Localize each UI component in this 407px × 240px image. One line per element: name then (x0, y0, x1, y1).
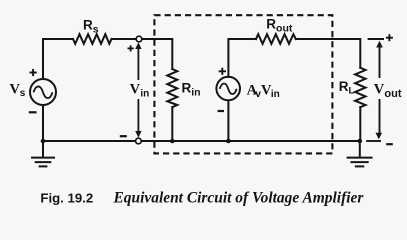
junction dot: AvVin bottom (226, 139, 231, 144)
polarity - of Vout (386, 143, 393, 145)
label Vout (with background patch) (372, 81, 386, 97)
label Vin (over arrow, with background patch) (129, 82, 152, 98)
node: input bottom terminal (open circle) (136, 138, 142, 144)
arrow Vin (between input terminals) (135, 42, 141, 137)
polarity - at input bottom (120, 135, 127, 137)
wire: Rs right to input node (112, 38, 137, 40)
junction dot: Rin bottom (170, 139, 175, 144)
polarity - of AvVin (218, 110, 224, 112)
polarity + of Vs (30, 69, 37, 76)
polarity + of Vout (386, 34, 393, 41)
polarity - of Vs (29, 111, 37, 113)
svg-text:in: in (140, 89, 149, 100)
svg-text:Equivalent Circuit of Voltage: Equivalent Circuit of Voltage Amplifier (113, 189, 365, 206)
junction dot: Vs bottom (41, 139, 46, 144)
polarity + at input node (128, 45, 134, 51)
polarity + of AvVin (219, 68, 226, 75)
resistor RL (355, 68, 365, 108)
svg-text:out: out (384, 88, 401, 100)
junction dot: RL bottom (358, 139, 363, 144)
resistor Rin (167, 69, 177, 107)
wire: Rout right to RL top (296, 39, 361, 68)
wire: input node to Rin top (142, 39, 173, 69)
svg-text:V: V (130, 82, 141, 98)
wire: RL bottom to bottom rail (359, 107, 361, 141)
wire: Vs bottom to bottom rail (42, 105, 44, 141)
resistor Rout (256, 34, 296, 44)
svg-text:s: s (20, 88, 26, 99)
wire: Rin bottom to bottom rail (171, 107, 173, 141)
arrow Vout with end ticks (366, 39, 384, 141)
dependent source U1 AvVin (216, 77, 240, 101)
source Vs (30, 79, 56, 105)
svg-text:V: V (374, 82, 385, 98)
wire: Vs top to Rs left (43, 39, 73, 79)
wire: bottom rail (43, 140, 360, 142)
svg-text:Fig. 19.2: Fig. 19.2 (40, 190, 93, 205)
svg-text:in: in (271, 89, 280, 100)
amplifier dashed box (154, 15, 332, 153)
resistor Rs (73, 34, 112, 44)
ground (right, below RL) (347, 141, 373, 166)
wire: AvVin top to Rout left (228, 39, 256, 77)
node: input top terminal (open circle) (136, 36, 142, 42)
ground (left, below Vs) (31, 141, 55, 166)
wire: AvVin bottom to bottom rail (227, 101, 229, 142)
